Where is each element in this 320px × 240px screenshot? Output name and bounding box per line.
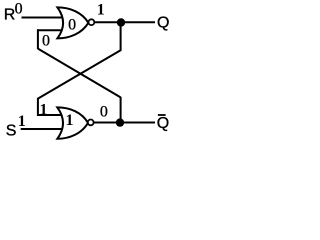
wire bottom-left vertical bbox=[37, 98, 39, 116]
junction node Qbar bbox=[116, 118, 124, 126]
svg-text:Q: Q bbox=[157, 115, 169, 132]
wire R input bbox=[22, 17, 64, 19]
junction node Q bbox=[117, 18, 125, 26]
svg-text:S: S bbox=[6, 122, 17, 139]
svg-text:0: 0 bbox=[42, 32, 50, 49]
wire top-left vertical bbox=[37, 29, 39, 49]
wire diagonal A (top-left to bottom-right) bbox=[38, 49, 121, 98]
NOR gate U2 output bubble bbox=[88, 120, 94, 126]
svg-text:0: 0 bbox=[15, 1, 23, 18]
svg-text:1: 1 bbox=[66, 112, 74, 129]
NOR gate U1 (top) body bbox=[57, 7, 88, 38]
svg-text:Q: Q bbox=[157, 15, 169, 32]
svg-text:1: 1 bbox=[97, 2, 105, 19]
wire bottom feedback horizontal (Q to U2 upper input) bbox=[37, 114, 63, 116]
svg-text:1: 1 bbox=[18, 113, 26, 130]
wire U1 output to Q bbox=[94, 21, 155, 23]
NOR gate U2 (bottom) body bbox=[57, 107, 88, 138]
wire diagonal B (top-right to bottom-left) bbox=[38, 50, 121, 98]
svg-text:0: 0 bbox=[100, 104, 108, 121]
wire bottom-right vertical into Qbar node bbox=[120, 97, 122, 123]
wire U2 output to Qbar bbox=[94, 122, 156, 124]
wire S input bbox=[21, 128, 63, 130]
wire top-right vertical from Q node bbox=[120, 22, 122, 51]
svg-text:1: 1 bbox=[40, 101, 48, 118]
wire top feedback horizontal (Qbar to U1 lower input) bbox=[37, 29, 63, 31]
svg-text:0: 0 bbox=[68, 16, 76, 33]
overline of Qbar bbox=[158, 114, 166, 116]
NOR gate U1 output bubble bbox=[89, 19, 95, 25]
